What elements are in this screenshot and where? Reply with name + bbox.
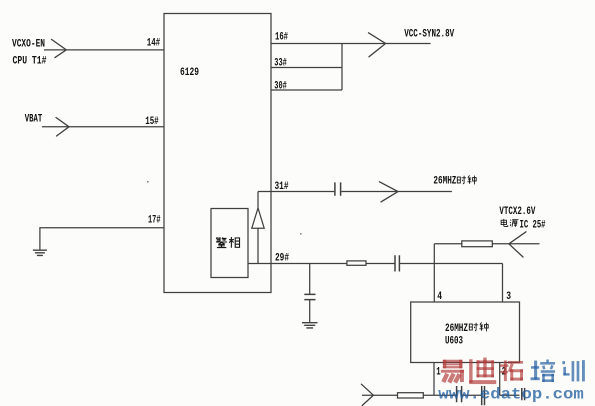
- ground G2: [302, 323, 318, 328]
- arrow bottom output: [361, 384, 373, 405]
- wire phase-detector vertical: [257, 192, 259, 264]
- wire bus vertical 16-33-30: [341, 44, 343, 91]
- wire pin1 vertical: [433, 363, 435, 396]
- wire pin15: [42, 126, 164, 128]
- glyph 时 in U603: [469, 323, 478, 331]
- svg-text:26MHZ: 26MHZ: [433, 176, 456, 188]
- glyph 源 of 电源IC: [510, 220, 519, 227]
- wire VTCX2.6V feed: [434, 243, 539, 245]
- capacitor C2 series on pin29: [395, 255, 399, 271]
- arrow 26MHZ out: [380, 182, 399, 202]
- wire pin3 vertical: [502, 264, 504, 303]
- glyph 钟 in U603: [479, 322, 488, 331]
- svg-text:31#: 31#: [275, 181, 289, 193]
- arrowhead triangle up: [252, 208, 264, 228]
- capacitor C5 bottom: [482, 386, 485, 405]
- IC U 6129 box: [164, 14, 271, 293]
- svg-text:4: 4: [437, 291, 442, 303]
- svg-text:CPU T1#: CPU T1#: [13, 55, 47, 67]
- speck: [147, 181, 149, 183]
- resistor R1 on pin29 line: [347, 261, 366, 265]
- wire pin2 vertical: [499, 363, 501, 396]
- watermark glyph 培: [531, 360, 555, 382]
- svg-text:14#: 14#: [147, 37, 161, 49]
- capacitor C4 bottom: [457, 386, 462, 402]
- svg-text:www.edatop.com: www.edatop.com: [438, 385, 584, 403]
- svg-text:1: 1: [436, 367, 441, 379]
- phase-detector box (鉴相): [211, 209, 248, 278]
- svg-text:17#: 17#: [148, 215, 161, 227]
- glyph 时 net label top: [457, 176, 466, 184]
- svg-text:30#: 30#: [274, 81, 287, 93]
- arrow into pin15: [56, 118, 69, 137]
- capacitor C1 on pin31 line: [335, 182, 341, 195]
- svg-text:U603: U603: [445, 336, 463, 348]
- resistor R3 bottom: [398, 393, 424, 398]
- speck: [300, 233, 302, 235]
- svg-text:VTCX2.6V: VTCX2.6V: [499, 206, 535, 218]
- svg-text:29#: 29#: [275, 253, 289, 265]
- svg-text:6129: 6129: [180, 67, 199, 79]
- wire shunt cap drop: [309, 264, 311, 295]
- glyph 鉴 of 鉴相: [216, 237, 227, 247]
- watermark glyph 拓: [500, 360, 523, 381]
- wire bottom output: [362, 394, 481, 396]
- wire pin4 vertical riser: [433, 244, 435, 302]
- resistor R2 on VTCX feed: [462, 241, 493, 247]
- arrow VTCX2.6V in: [509, 232, 526, 257]
- svg-text:15#: 15#: [145, 116, 159, 128]
- arrow into pin14: [52, 39, 67, 57]
- wire pin33: [271, 67, 342, 69]
- wire pin17: [40, 228, 164, 250]
- wire cap to ground: [309, 300, 311, 322]
- wire pin2 bottom stub: [500, 394, 520, 396]
- capacitor C6 bottom right: [522, 388, 525, 400]
- glyph 电 of 电源IC: [501, 219, 508, 227]
- wire pin29: [248, 263, 503, 265]
- capacitor C3 to ground: [304, 294, 315, 299]
- wire pin16 VCC-SYN2.8V: [271, 43, 431, 45]
- svg-text:16#: 16#: [275, 31, 288, 43]
- arrow VCC-SYN2.8V: [369, 33, 386, 57]
- watermark red 易迪拓 blue 培训: [441, 358, 585, 385]
- svg-text:IC 25#: IC 25#: [520, 220, 546, 232]
- wire pin31 26MHZ clock: [258, 191, 452, 193]
- svg-text:VCC-SYN2.8V: VCC-SYN2.8V: [404, 29, 454, 41]
- svg-text:3: 3: [506, 291, 511, 303]
- wire pin30: [271, 89, 342, 91]
- svg-text:VCXO-EN: VCXO-EN: [12, 38, 45, 50]
- ground G1: [33, 250, 47, 255]
- glyph 相 of 鉴相: [229, 237, 240, 248]
- svg-text:26MHZ: 26MHZ: [445, 323, 468, 335]
- watermark glyph 易: [441, 360, 464, 383]
- wire pin14: [44, 49, 164, 51]
- glyph 钟 net label top: [467, 175, 476, 184]
- svg-text:VBAT: VBAT: [25, 114, 43, 126]
- oscillator U603 box: [411, 302, 520, 363]
- svg-text:33#: 33#: [274, 58, 287, 70]
- watermark glyph 训: [562, 360, 585, 381]
- watermark glyph 迪: [469, 358, 496, 385]
